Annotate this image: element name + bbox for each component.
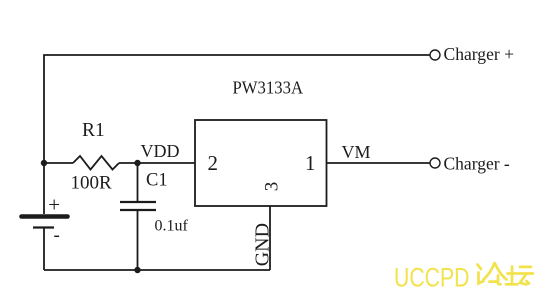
svg-text:100R: 100R bbox=[71, 173, 113, 194]
svg-text:VDD: VDD bbox=[141, 141, 180, 161]
svg-text:UCCPD: UCCPD bbox=[394, 262, 470, 291]
wire battery - to bottom rail bbox=[43, 229, 45, 271]
capacitor C1 top plate bbox=[120, 201, 156, 203]
svg-text:Charger +: Charger + bbox=[444, 44, 515, 64]
battery BT1 negative plate bbox=[33, 226, 54, 228]
op-amp U1 PW3133A body bbox=[195, 120, 327, 206]
svg-text:1: 1 bbox=[305, 151, 316, 175]
capacitor C1 bottom plate bbox=[120, 209, 156, 211]
svg-text:PW3133A: PW3133A bbox=[233, 77, 304, 97]
wire pin 3 GND to bottom rail bbox=[269, 206, 271, 270]
wire node B to pin 2 of U1 bbox=[138, 162, 196, 164]
svg-text:2: 2 bbox=[208, 151, 219, 175]
wire capacitor C1 to bottom rail bbox=[137, 211, 139, 270]
wire resistor to node B bbox=[119, 162, 138, 164]
node A junction dot bbox=[41, 160, 47, 166]
watermark UCCPD logo text bbox=[394, 262, 533, 291]
svg-text:C1: C1 bbox=[146, 171, 168, 191]
svg-text:R1: R1 bbox=[82, 120, 105, 141]
wire node B to capacitor C1 bbox=[137, 163, 139, 201]
svg-text:GND: GND bbox=[252, 223, 274, 266]
svg-text:0.1uf: 0.1uf bbox=[155, 218, 189, 235]
svg-text:+: + bbox=[48, 193, 60, 217]
wire top rail from battery+ to Charger+ bbox=[44, 55, 430, 163]
node C junction dot on bottom rail bbox=[134, 267, 140, 273]
watermark hanzi LUN bbox=[478, 263, 507, 284]
wire bottom rail bbox=[44, 269, 270, 271]
svg-text:3: 3 bbox=[261, 182, 282, 192]
battery BT1 positive plate bbox=[22, 214, 68, 219]
node B junction dot bbox=[134, 160, 140, 166]
wire node A to resistor R1 bbox=[44, 162, 73, 164]
terminal circle Charger- bbox=[430, 158, 440, 168]
resistor R1 zigzag bbox=[73, 156, 119, 170]
wire node A to battery + bbox=[43, 163, 45, 214]
watermark hanzi TAN bbox=[506, 267, 533, 285]
svg-text:-: - bbox=[54, 225, 60, 246]
wire pin 1 VM to Charger- bbox=[327, 162, 430, 164]
svg-text:VM: VM bbox=[342, 142, 371, 162]
terminal circle Charger+ bbox=[430, 50, 440, 60]
svg-text:Charger -: Charger - bbox=[444, 153, 510, 173]
